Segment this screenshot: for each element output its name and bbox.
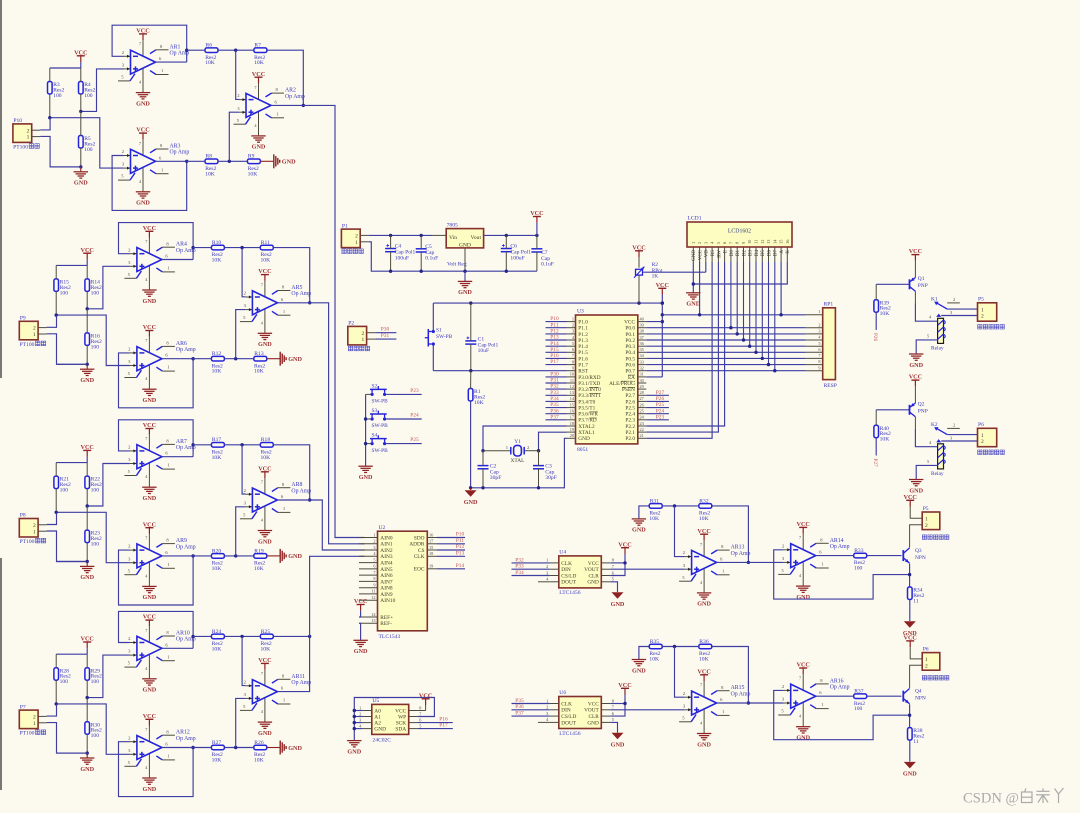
resistor R6 xyxy=(205,48,218,53)
svg-text:P11: P11 xyxy=(550,322,558,328)
op-amp AR2 xyxy=(258,83,260,100)
svg-text:11: 11 xyxy=(754,240,759,244)
resistor R32 xyxy=(699,504,712,509)
svg-text:RESP: RESP xyxy=(824,383,837,389)
svg-text:DOUT: DOUT xyxy=(561,580,576,586)
ground (bridge P9) xyxy=(86,364,88,369)
wire keys gnd rail xyxy=(365,394,367,465)
svg-text:3: 3 xyxy=(546,570,548,575)
svg-text:LTC1456: LTC1456 xyxy=(559,731,580,737)
svg-text:15: 15 xyxy=(570,402,574,407)
svg-text:R25: R25 xyxy=(261,629,271,635)
svg-text:LCD1602: LCD1602 xyxy=(728,229,751,235)
wire AR4 feedback loop xyxy=(119,223,194,260)
wire eeprom address/WP net xyxy=(354,698,434,741)
svg-text:P25: P25 xyxy=(656,402,665,408)
svg-text:GND: GND xyxy=(458,289,472,296)
svg-text:GND: GND xyxy=(258,341,272,348)
svg-text:P2.3: P2.3 xyxy=(625,418,635,424)
resistor R36 xyxy=(699,644,712,649)
svg-text:11: 11 xyxy=(913,739,919,745)
svg-text:AIN0: AIN0 xyxy=(380,535,393,541)
resistor R40 xyxy=(874,425,879,438)
svg-text:Y1: Y1 xyxy=(514,439,521,445)
svg-text:1: 1 xyxy=(691,242,696,244)
op-amp AR6 xyxy=(148,337,150,354)
ground (bridge P8) xyxy=(86,562,88,567)
svg-text:3: 3 xyxy=(373,545,375,550)
svg-text:D0: D0 xyxy=(730,250,735,257)
wire P2 pin1 stub / node P31 xyxy=(375,338,396,340)
svg-text:32: 32 xyxy=(640,366,644,371)
svg-text:P3.1/TXD: P3.1/TXD xyxy=(578,381,600,387)
svg-text:RST: RST xyxy=(578,369,588,375)
svg-text:VCC: VCC xyxy=(632,244,645,251)
resistor R13 xyxy=(254,356,267,361)
svg-text:11: 11 xyxy=(371,589,375,594)
wire lcd vcc net xyxy=(662,314,805,316)
svg-text:GND: GND xyxy=(282,159,296,166)
svg-text:2: 2 xyxy=(818,322,820,327)
transistor Q1 PNP xyxy=(909,279,911,289)
svg-text:GND: GND xyxy=(143,298,157,305)
svg-text:VOUT: VOUT xyxy=(584,567,599,573)
resistor R31 xyxy=(649,504,662,509)
svg-text:1: 1 xyxy=(818,309,820,314)
svg-text:Op Amp: Op Amp xyxy=(830,544,850,550)
svg-text:1: 1 xyxy=(373,532,375,537)
svg-text:P5: P5 xyxy=(978,296,984,302)
svg-text:AIN3: AIN3 xyxy=(380,554,393,560)
VCC power symbol (eeprom) xyxy=(425,699,427,705)
wire R14 leads xyxy=(86,265,88,279)
wire AR13 out to AR14 pin3 xyxy=(717,561,784,563)
svg-text:DIN: DIN xyxy=(561,708,571,714)
VCC power symbol (bridge P8) xyxy=(86,450,88,456)
svg-text:P0.2: P0.2 xyxy=(625,338,635,344)
svg-text:Relay: Relay xyxy=(931,346,944,352)
op-amp AR5 xyxy=(264,281,266,298)
wire R26 to ground xyxy=(267,747,280,749)
ground (eeprom) xyxy=(347,740,361,742)
svg-text:ADDR: ADDR xyxy=(409,542,425,548)
svg-text:AR12: AR12 xyxy=(176,730,190,736)
svg-text:VCC: VCC xyxy=(697,528,710,535)
wire AR14 pin2 feedback xyxy=(774,550,910,599)
wire R30 leads xyxy=(86,698,88,722)
resistor R34 xyxy=(908,587,913,600)
resistor R35 xyxy=(649,644,662,649)
wire AR11 output up to ADC AIN3 xyxy=(277,556,364,691)
svg-text:10K: 10K xyxy=(261,258,271,264)
svg-text:P2.2: P2.2 xyxy=(625,424,635,430)
svg-text:23: 23 xyxy=(640,421,644,426)
resistor R37 xyxy=(854,694,867,699)
ground (K1) xyxy=(909,353,923,355)
wire node to AR7 pin3 xyxy=(87,464,130,507)
svg-text:P3.2/INT0: P3.2/INT0 xyxy=(578,387,601,393)
wire AR15 out to AR16 pin3 xyxy=(717,702,784,704)
svg-text:P1.3: P1.3 xyxy=(578,338,588,344)
wire mcu port stubs P30-P37 xyxy=(546,376,567,378)
svg-text:40: 40 xyxy=(640,316,644,321)
wire VCC node row xyxy=(56,264,87,266)
VCC power symbol (mcu) xyxy=(661,288,663,294)
svg-text:GND: GND xyxy=(80,574,94,581)
svg-text:P3.3/INT1: P3.3/INT1 xyxy=(578,393,601,399)
svg-text:R13: R13 xyxy=(254,351,264,357)
resistor R38 xyxy=(908,728,913,741)
svg-text:P26: P26 xyxy=(872,333,878,341)
capacitor C3 xyxy=(533,465,544,467)
wire R25 right to bus xyxy=(273,635,309,637)
svg-text:12: 12 xyxy=(570,384,574,389)
wire Q4 collector to P6 xyxy=(910,665,923,688)
crystal Y1 xyxy=(483,450,510,452)
svg-text:P32: P32 xyxy=(550,384,559,390)
svg-text:GND: GND xyxy=(143,495,157,502)
svg-text:3: 3 xyxy=(950,435,952,440)
svg-text:1: 1 xyxy=(981,307,984,313)
svg-text:GND: GND xyxy=(143,786,157,793)
svg-text:VCC: VCC xyxy=(903,635,916,642)
resistor R9 xyxy=(247,159,260,164)
svg-text:13: 13 xyxy=(570,390,574,395)
wire R17-R18 junction xyxy=(224,444,260,446)
svg-text:PNP: PNP xyxy=(918,409,928,415)
svg-text:A: A xyxy=(780,250,785,254)
svg-text:R37: R37 xyxy=(854,689,864,695)
wire R11 right to AR5 output xyxy=(273,248,309,303)
svg-text:0.1uF: 0.1uF xyxy=(425,256,438,262)
svg-text:VCC: VCC xyxy=(136,28,149,35)
svg-text:CS/LD: CS/LD xyxy=(561,714,576,720)
svg-text:10K: 10K xyxy=(261,455,271,461)
wire R31-R32 junction to AR13 pin2 xyxy=(662,505,699,507)
svg-text:RW: RW xyxy=(717,250,722,258)
svg-text:Q1: Q1 xyxy=(918,276,925,282)
svg-text:1: 1 xyxy=(925,657,928,663)
wire lcd RW to P2.1 xyxy=(646,262,718,432)
svg-text:R35: R35 xyxy=(650,639,660,645)
wire AR12 output to R27 xyxy=(162,747,212,749)
connector P9 PT100 xyxy=(19,321,38,340)
wire lcd E to P2.2 xyxy=(646,262,724,426)
wire Q2 collector to coil xyxy=(914,417,916,429)
svg-text:C4: C4 xyxy=(395,244,402,250)
svg-text:2: 2 xyxy=(953,423,955,428)
wire R20-R19 junction to AR8 pin3 xyxy=(224,555,253,557)
svg-text:E: E xyxy=(724,250,729,253)
svg-text:C5: C5 xyxy=(425,244,432,250)
wire dac U4 gnd xyxy=(610,582,617,592)
svg-text:P0.3: P0.3 xyxy=(625,344,635,350)
adc U2 TLC1543 body xyxy=(378,531,428,631)
resistor R28 xyxy=(54,668,59,681)
svg-text:D7: D7 xyxy=(774,250,779,257)
wire R36 feedback to output xyxy=(712,647,749,704)
capacitor C4 xyxy=(385,248,396,250)
svg-text:GND: GND xyxy=(288,356,302,363)
svg-text:VCC: VCC xyxy=(143,521,156,528)
svg-text:EA: EA xyxy=(628,375,635,381)
svg-text:C3: C3 xyxy=(545,463,552,469)
VCC power symbol (Q1) xyxy=(914,255,916,261)
wire R37 to Q4 base xyxy=(867,695,902,697)
svg-text:VOUT: VOUT xyxy=(584,708,599,714)
wire R38 to gnd xyxy=(909,740,911,762)
svg-text:2: 2 xyxy=(373,539,375,544)
svg-text:D3: D3 xyxy=(749,250,754,257)
svg-text:XTAL1: XTAL1 xyxy=(578,430,595,436)
svg-text:10K: 10K xyxy=(212,369,222,375)
svg-text:1: 1 xyxy=(572,316,574,321)
transistor Q2 PNP xyxy=(909,405,911,415)
svg-text:C6: C6 xyxy=(510,244,517,250)
svg-text:WP: WP xyxy=(398,714,406,720)
svg-text:P10: P10 xyxy=(456,532,465,538)
wire mcu VCC pin40 xyxy=(646,321,662,323)
svg-text:VCC: VCC xyxy=(909,248,922,255)
svg-text:VCC: VCC xyxy=(699,249,704,260)
svg-text:CLK: CLK xyxy=(414,554,425,560)
svg-text:SW-PB: SW-PB xyxy=(436,334,453,340)
svg-text:NPN: NPN xyxy=(915,696,926,702)
svg-text:Op Amp: Op Amp xyxy=(291,680,311,686)
resistor R4 xyxy=(79,82,84,95)
svg-text:C2: C2 xyxy=(490,463,497,469)
svg-text:R33: R33 xyxy=(854,548,864,554)
svg-text:D4: D4 xyxy=(755,250,760,257)
wire AR9 output to R20 xyxy=(162,555,212,557)
svg-text:P33: P33 xyxy=(550,390,559,396)
svg-text:Vin: Vin xyxy=(449,235,457,241)
eeprom U5 24C02 body xyxy=(372,704,409,734)
svg-text:P0.7: P0.7 xyxy=(625,369,635,375)
svg-text:100: 100 xyxy=(84,147,93,153)
svg-text:GND: GND xyxy=(909,362,923,369)
svg-text:GND: GND xyxy=(354,648,368,655)
ground right of R9 xyxy=(273,154,275,168)
svg-text:P23: P23 xyxy=(656,414,665,420)
svg-text:Op Amp: Op Amp xyxy=(285,94,305,100)
wire crystal gnd rail xyxy=(471,438,567,488)
svg-text:P24: P24 xyxy=(656,408,665,414)
svg-text:GND: GND xyxy=(632,667,646,674)
svg-text:AIN8: AIN8 xyxy=(380,586,393,592)
svg-text:GND: GND xyxy=(347,748,361,755)
svg-text:3: 3 xyxy=(546,711,548,716)
svg-text:GND: GND xyxy=(288,553,302,560)
svg-text:10K: 10K xyxy=(248,171,258,177)
wire R40 base net xyxy=(875,410,877,425)
resistor R7 xyxy=(254,48,267,53)
resistor R12 xyxy=(211,356,224,361)
svg-text:D1: D1 xyxy=(736,250,741,257)
op-amp AR7 xyxy=(148,435,150,452)
svg-text:P1.4: P1.4 xyxy=(578,344,588,350)
wire K2 coil pin5 gnd xyxy=(916,465,937,479)
svg-text:33: 33 xyxy=(640,359,644,364)
svg-text:GND: GND xyxy=(587,580,599,586)
svg-text:GND: GND xyxy=(796,735,810,742)
wire gnd row xyxy=(57,363,88,365)
svg-text:C1: C1 xyxy=(478,336,485,342)
svg-text:P1.2: P1.2 xyxy=(578,332,588,338)
svg-text:10K: 10K xyxy=(212,646,222,652)
wire P8 pin1 to gnd row xyxy=(47,531,88,562)
svg-text:P35: P35 xyxy=(550,402,559,408)
wire P10 pin2 to sense row xyxy=(40,118,50,130)
svg-text:1: 1 xyxy=(546,698,548,703)
svg-text:10K: 10K xyxy=(880,311,890,317)
svg-text:29: 29 xyxy=(640,384,644,389)
svg-text:10K: 10K xyxy=(261,646,271,652)
svg-text:PT100: PT100 xyxy=(20,731,35,737)
svg-text:P17: P17 xyxy=(439,723,448,729)
svg-text:GND: GND xyxy=(74,180,88,187)
svg-text:25: 25 xyxy=(640,409,644,414)
svg-text:AIN2: AIN2 xyxy=(380,548,393,554)
ground (bridge P7) xyxy=(86,753,88,758)
wire Q2 emitter xyxy=(914,402,916,404)
wire K1 NO to P5 pin2 xyxy=(941,315,977,317)
svg-text:AR8: AR8 xyxy=(291,482,302,488)
svg-text:P37: P37 xyxy=(515,711,524,717)
svg-text:1K: 1K xyxy=(652,274,659,280)
resistor R16 xyxy=(85,333,90,346)
svg-text:10K: 10K xyxy=(212,566,222,572)
svg-text:10K: 10K xyxy=(254,369,264,375)
wire R4 leads xyxy=(80,68,82,82)
svg-text:GND: GND xyxy=(632,527,646,534)
svg-text:5: 5 xyxy=(419,723,421,728)
svg-text:P0.4: P0.4 xyxy=(625,350,635,356)
svg-text:VCC: VCC xyxy=(143,324,156,331)
wire dac U6 gnd xyxy=(610,722,617,732)
svg-text:0.1uF: 0.1uF xyxy=(541,262,554,268)
svg-text:R7: R7 xyxy=(254,43,261,49)
svg-text:R9: R9 xyxy=(248,154,255,160)
svg-text:3: 3 xyxy=(818,329,820,334)
svg-text:P1.5: P1.5 xyxy=(578,350,588,356)
svg-text:P3.0/RXD: P3.0/RXD xyxy=(578,375,600,381)
svg-text:P27: P27 xyxy=(872,459,878,467)
wire R31 to gnd xyxy=(639,506,649,519)
svg-text:1: 1 xyxy=(362,337,365,343)
svg-text:GND: GND xyxy=(359,474,373,481)
svg-text:VCC: VCC xyxy=(419,692,432,699)
svg-text:100uF: 100uF xyxy=(395,255,409,261)
svg-text:P11: P11 xyxy=(456,538,464,544)
wire R35 to gnd xyxy=(639,647,649,660)
svg-text:100: 100 xyxy=(53,93,62,99)
resistor R19 xyxy=(254,554,267,559)
svg-text:10K: 10K xyxy=(699,516,709,522)
svg-text:VCC: VCC xyxy=(796,521,809,528)
mcu U3 8051 body xyxy=(576,315,638,444)
svg-text:3: 3 xyxy=(950,310,952,315)
wire R40 stub / node P27 xyxy=(875,438,877,456)
svg-text:GND: GND xyxy=(464,499,478,506)
svg-text:GND: GND xyxy=(136,100,150,107)
svg-text:2: 2 xyxy=(362,331,365,337)
svg-text:P2.7: P2.7 xyxy=(625,393,635,399)
svg-text:1: 1 xyxy=(33,529,36,535)
wire P9 pin1 to gnd row xyxy=(47,334,88,365)
svg-text:1: 1 xyxy=(925,516,928,522)
wire dac U4 inputs / nodes P32,P33,P34 xyxy=(512,562,550,564)
svg-text:5: 5 xyxy=(927,459,929,464)
svg-text:100: 100 xyxy=(60,290,69,296)
svg-text:K2: K2 xyxy=(931,422,938,428)
svg-text:1: 1 xyxy=(355,240,358,246)
wire mcu EA pin31 xyxy=(646,376,662,378)
resistor R18 xyxy=(260,443,273,448)
capacitor C6 xyxy=(501,248,512,250)
svg-text:P14: P14 xyxy=(456,563,465,569)
svg-text:CLR: CLR xyxy=(588,714,599,720)
svg-text:REF+: REF+ xyxy=(380,615,393,621)
wire R3 leads xyxy=(49,68,51,82)
svg-text:AR11: AR11 xyxy=(291,674,305,680)
svg-text:10K: 10K xyxy=(254,60,264,66)
wire R18 right to AR8 output xyxy=(273,445,309,500)
wire Q1 emitter xyxy=(914,277,916,279)
op-amp AR3 xyxy=(142,139,144,156)
wire AR1 feedback loop xyxy=(112,25,187,62)
wire P7 pin1 to gnd row xyxy=(47,723,88,754)
svg-text:VCC: VCC xyxy=(143,225,156,232)
svg-text:P7: P7 xyxy=(20,704,26,710)
svg-text:GND: GND xyxy=(136,200,150,207)
wire power bottom rail xyxy=(369,242,537,271)
wire gnd row xyxy=(50,166,81,168)
resistor R15 xyxy=(54,279,59,292)
svg-text:8: 8 xyxy=(419,705,421,710)
svg-text:Op Amp: Op Amp xyxy=(176,736,196,742)
connector P5 constant-current out xyxy=(922,512,940,530)
ground (crystal) xyxy=(470,488,472,490)
VCC power symbol (pot R2) xyxy=(638,251,640,257)
svg-text:DOUT: DOUT xyxy=(561,720,576,726)
svg-text:VCC: VCC xyxy=(143,713,156,720)
svg-text:5: 5 xyxy=(572,341,574,346)
svg-text:GND: GND xyxy=(697,601,711,608)
resistor R1 xyxy=(468,389,473,402)
svg-text:10K: 10K xyxy=(212,258,222,264)
wire reset VCC rail xyxy=(433,302,662,304)
svg-text:LTC1456: LTC1456 xyxy=(559,590,580,596)
svg-text:XTAL: XTAL xyxy=(511,458,525,464)
svg-text:2: 2 xyxy=(33,523,36,529)
svg-text:P37: P37 xyxy=(550,414,559,420)
svg-text:Vout: Vout xyxy=(471,235,482,241)
svg-text:9: 9 xyxy=(818,365,820,370)
svg-text:CLK: CLK xyxy=(561,561,572,567)
svg-text:13: 13 xyxy=(371,618,375,623)
svg-text:18: 18 xyxy=(429,551,433,556)
svg-text:5: 5 xyxy=(818,341,820,346)
wire Q3 emitter junction xyxy=(909,564,911,587)
ground (dac U6) xyxy=(612,733,624,740)
svg-text:P13: P13 xyxy=(550,335,559,341)
wire R6 left xyxy=(187,49,205,51)
resistor R5 xyxy=(79,136,84,149)
svg-text:Volt Reg: Volt Reg xyxy=(447,262,467,268)
svg-text:28: 28 xyxy=(640,390,644,395)
svg-text:AR16: AR16 xyxy=(830,678,844,684)
